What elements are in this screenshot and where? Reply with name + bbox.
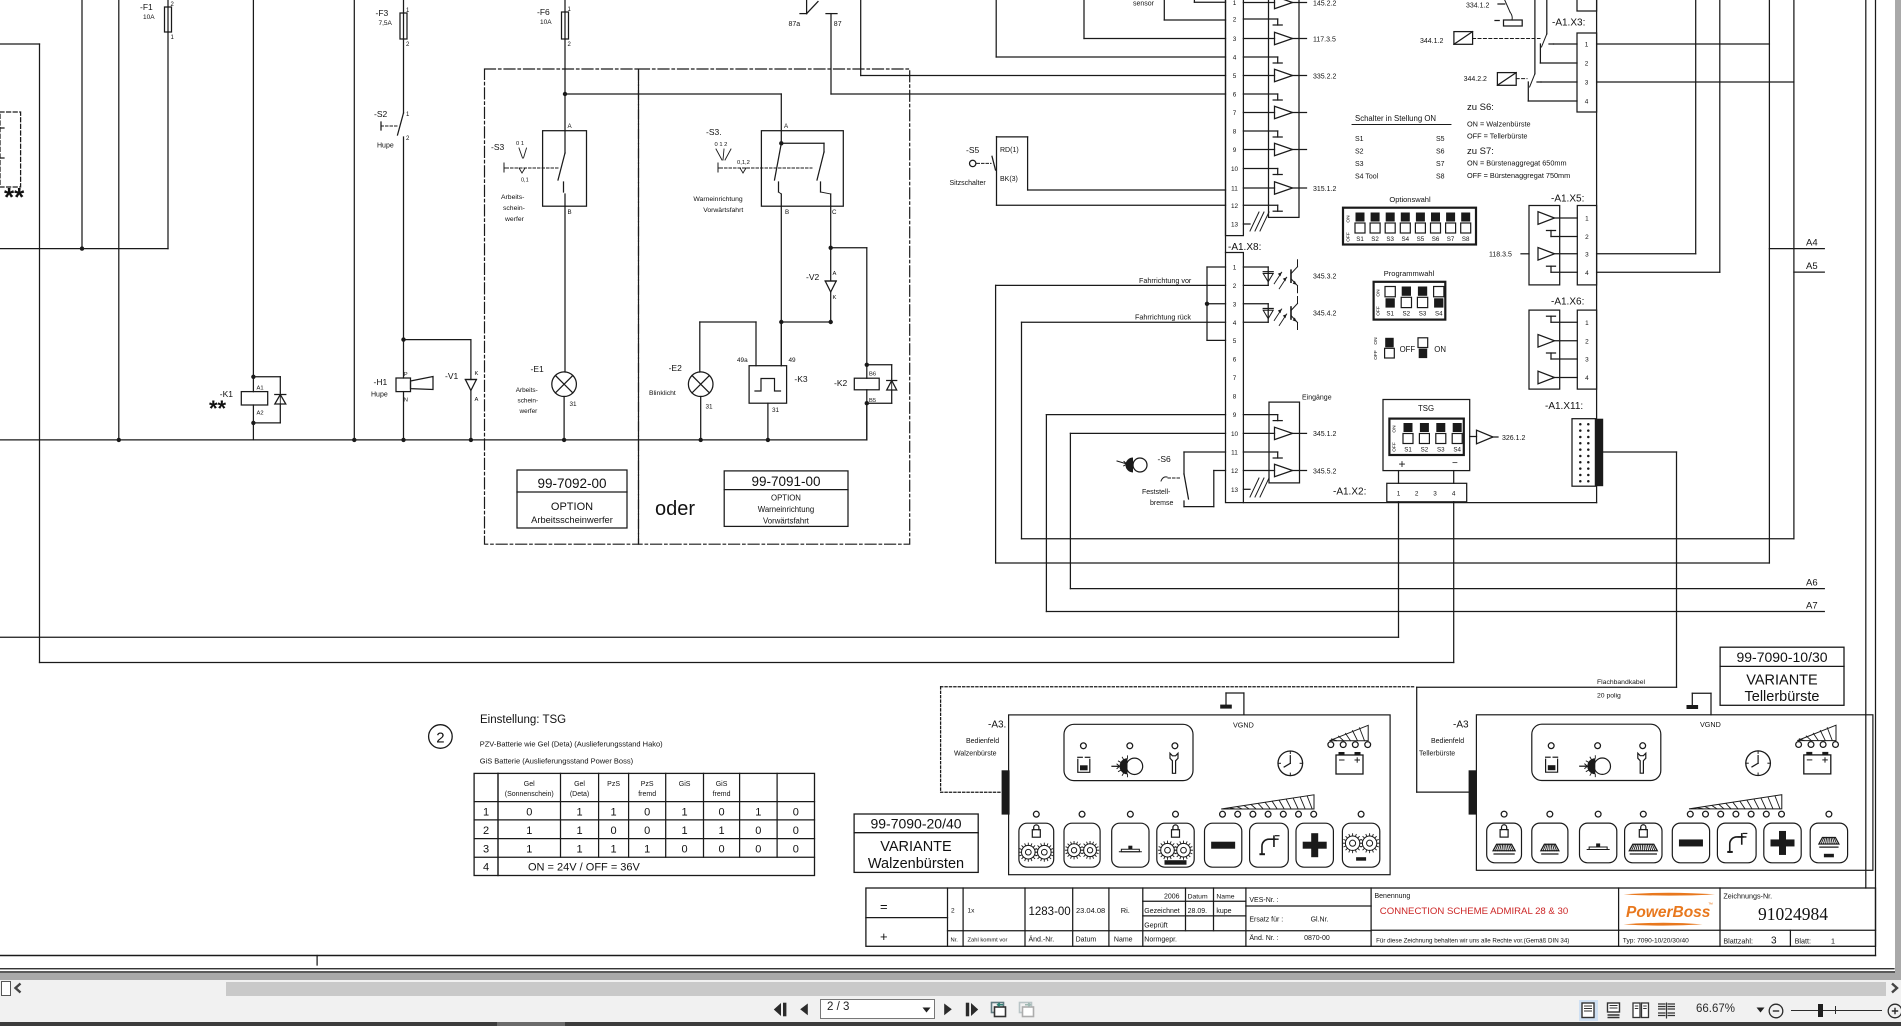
variant box 99-7090-20/40 bbox=[854, 814, 978, 872]
svg-text:Vorwärtsfahrt: Vorwärtsfahrt bbox=[763, 517, 810, 526]
svg-text:28.09.: 28.09. bbox=[1188, 908, 1208, 915]
wire X2 pin1 down to bus bbox=[1398, 502, 1400, 638]
dashed box (cut component) bbox=[0, 112, 21, 187]
svg-text:™: ™ bbox=[1708, 902, 1713, 908]
button 6 bbox=[1717, 823, 1756, 863]
svg-text:87: 87 bbox=[834, 21, 842, 28]
svg-text:OFF: OFF bbox=[1392, 442, 1398, 452]
svg-text:345.1.2: 345.1.2 bbox=[1313, 431, 1336, 438]
connector A1.X5 bbox=[1577, 206, 1596, 285]
svg-text:Tellerbürste: Tellerbürste bbox=[1419, 751, 1455, 758]
svg-text:1: 1 bbox=[568, 7, 572, 13]
svg-text:49: 49 bbox=[789, 357, 797, 364]
svg-text:8: 8 bbox=[1233, 394, 1237, 401]
svg-text:OFF: OFF bbox=[1346, 232, 1352, 242]
svg-text:0: 0 bbox=[644, 807, 650, 819]
scrollbar left grip box bbox=[1, 981, 11, 996]
svg-text:sensor: sensor bbox=[1133, 1, 1155, 8]
battery option table bbox=[474, 773, 814, 875]
svg-text:(Sonnenschein): (Sonnenschein) bbox=[505, 791, 554, 798]
variant box 99-7090-10/30 bbox=[1720, 647, 1844, 705]
svg-text:S8: S8 bbox=[1436, 174, 1445, 181]
svg-text:145.2.2: 145.2.2 bbox=[1313, 0, 1336, 7]
svg-text:7: 7 bbox=[1233, 375, 1237, 382]
driver pin 12 bbox=[1243, 470, 1274, 472]
wire TSG - to X2 pin4 bbox=[1453, 471, 1455, 484]
svg-text:2: 2 bbox=[1233, 17, 1237, 24]
svg-text:zu S6:: zu S6: bbox=[1467, 102, 1494, 113]
driver X6 pin 4 bbox=[1538, 371, 1555, 384]
parking brake lamp icon bbox=[1117, 461, 1127, 466]
svg-text:1: 1 bbox=[611, 807, 617, 819]
svg-text:B: B bbox=[568, 209, 572, 216]
connector A1.X7 strip bbox=[1226, 0, 1244, 236]
toolbar prev-page button bbox=[799, 1003, 811, 1017]
switch blade to pin3 bbox=[1534, 0, 1536, 74]
A1.X6 driver box bbox=[1529, 310, 1560, 389]
toolbar next-page button bbox=[943, 1003, 955, 1017]
svg-text:Zahl kommt vor: Zahl kommt vor bbox=[968, 938, 1008, 944]
relay coil K2 bbox=[854, 378, 879, 390]
svg-text:Datum: Datum bbox=[1076, 937, 1097, 944]
battery icon bbox=[1804, 755, 1831, 774]
svg-text:2: 2 bbox=[951, 908, 955, 915]
svg-text:49a: 49a bbox=[737, 357, 748, 364]
svg-text:91024984: 91024984 bbox=[1758, 904, 1828, 924]
svg-text:3: 3 bbox=[1771, 936, 1777, 947]
svg-text:Vorwärtsfahrt: Vorwärtsfahrt bbox=[703, 207, 743, 214]
button 1 bbox=[1019, 823, 1054, 867]
connector A1.X3 bbox=[1577, 33, 1597, 112]
svg-text:31: 31 bbox=[706, 404, 714, 411]
svg-text:1: 1 bbox=[526, 844, 532, 856]
svg-text:A6: A6 bbox=[1806, 578, 1818, 589]
wire C to K2 branch bbox=[831, 247, 867, 249]
svg-text:Einstellung: TSG: Einstellung: TSG bbox=[480, 714, 566, 726]
svg-text:99-7090-20/40: 99-7090-20/40 bbox=[870, 816, 961, 832]
switch blade to pin1 bbox=[1546, 0, 1548, 34]
svg-text:Walzenbürsten: Walzenbürsten bbox=[868, 856, 964, 872]
input symbol pin 2 bbox=[1243, 18, 1277, 20]
svg-text:Programmwahl: Programmwahl bbox=[1384, 269, 1435, 278]
svg-text:1: 1 bbox=[406, 112, 410, 118]
svg-text:2: 2 bbox=[1585, 234, 1589, 241]
svg-text:2: 2 bbox=[1585, 61, 1589, 68]
svg-text:0: 0 bbox=[718, 807, 724, 819]
svg-text:S5: S5 bbox=[1436, 136, 1445, 143]
svg-text:2: 2 bbox=[436, 730, 444, 747]
svg-text:Gel: Gel bbox=[574, 781, 585, 788]
driver pin 3 bbox=[1243, 38, 1274, 40]
bus to X2 pin1 bbox=[0, 636, 1399, 638]
flasher K3 bbox=[755, 322, 757, 366]
icon wrench bbox=[1638, 753, 1646, 773]
svg-text:99-7090-10/30: 99-7090-10/30 bbox=[1736, 649, 1827, 665]
LED circle bbox=[1172, 743, 1178, 749]
svg-text:0: 0 bbox=[611, 825, 617, 837]
scale circles bbox=[1687, 811, 1693, 817]
battery wedge bbox=[1330, 725, 1369, 740]
svg-text:OFF: OFF bbox=[1373, 350, 1379, 360]
svg-text:A: A bbox=[784, 123, 789, 130]
A1.X5 driver box bbox=[1529, 206, 1560, 285]
wire to S3. box A bbox=[565, 93, 781, 95]
svg-text:0: 0 bbox=[644, 825, 650, 837]
viewer canvas gray right strip bbox=[1895, 0, 1901, 980]
svg-text:1: 1 bbox=[171, 35, 175, 41]
scrollbar right arrow bbox=[1888, 981, 1901, 995]
layout icon two-page continuous bbox=[1657, 1002, 1676, 1019]
svg-text:344.2.2: 344.2.2 bbox=[1464, 76, 1487, 83]
svg-text:Walzenbürste: Walzenbürste bbox=[954, 751, 997, 758]
driver X5 pin 1 bbox=[1538, 212, 1555, 225]
driver X5 pin 3 bbox=[1538, 248, 1555, 261]
toolbar next-view icon (disabled) bbox=[1016, 1000, 1036, 1020]
indicator group box bbox=[1064, 724, 1193, 780]
driver pin 10 bbox=[1243, 432, 1274, 434]
driver pin 5 bbox=[1243, 75, 1274, 77]
svg-text:**: ** bbox=[209, 396, 227, 421]
svg-text:-S5: -S5 bbox=[966, 145, 980, 155]
wire pin9 to A7 bus bbox=[1045, 415, 1047, 612]
bus to X2 pin4 bbox=[40, 662, 1454, 664]
bracket to pin2 bbox=[1539, 44, 1541, 63]
svg-text:S3: S3 bbox=[1386, 236, 1394, 243]
svg-text:10: 10 bbox=[1231, 166, 1239, 173]
wire RD to X7 pin11 bbox=[1028, 189, 1226, 191]
svg-text:2006: 2006 bbox=[1164, 894, 1180, 901]
wire X3 pin3 to A5 riser bbox=[1597, 81, 1794, 83]
svg-text:Für diese Zeichnung behalten w: Für diese Zeichnung behalten wir uns all… bbox=[1376, 938, 1569, 945]
svg-text:1: 1 bbox=[682, 807, 688, 819]
button 8 bbox=[1810, 823, 1847, 863]
svg-text:=: = bbox=[880, 899, 888, 914]
svg-text:6: 6 bbox=[1233, 357, 1237, 364]
svg-text:OPTION: OPTION bbox=[771, 494, 801, 503]
button 8 bbox=[1342, 823, 1379, 867]
A4 riser bbox=[1768, 0, 1770, 563]
svg-text:A1: A1 bbox=[257, 386, 264, 392]
svg-text:S1: S1 bbox=[1356, 236, 1364, 243]
wire vor down to A4 bus bbox=[995, 285, 997, 563]
button 6 bbox=[1250, 823, 1289, 867]
svg-text:RD(1): RD(1) bbox=[1000, 147, 1019, 154]
harness dotted to left panel bbox=[941, 686, 1415, 688]
input symbol X5 pin 2 bbox=[1551, 236, 1577, 238]
svg-text:S4: S4 bbox=[1453, 447, 1461, 454]
zoom slider line bbox=[1791, 1010, 1882, 1011]
wire BK to X7 pin12 bbox=[997, 204, 1226, 206]
input symbol pin 9 bbox=[1243, 414, 1277, 416]
svg-text:1: 1 bbox=[644, 844, 650, 856]
svg-text:Datum: Datum bbox=[1188, 894, 1208, 901]
svg-text:-A3.: -A3. bbox=[988, 720, 1006, 731]
svg-text:Arbeitsscheinwerfer: Arbeitsscheinwerfer bbox=[531, 515, 613, 525]
button 4 bbox=[1625, 823, 1662, 863]
VGND ground symbol bbox=[1710, 693, 1712, 715]
battery circles bbox=[1328, 742, 1334, 748]
wire horizontal y248 bbox=[0, 248, 168, 250]
wire X5 pin4 up bbox=[1597, 271, 1720, 273]
svg-text:Änd.-Nr.: Änd.-Nr. bbox=[1029, 936, 1055, 944]
wire F1 down bbox=[167, 32, 169, 249]
svg-text:3: 3 bbox=[1585, 251, 1589, 258]
svg-text:S7: S7 bbox=[1436, 161, 1445, 168]
svg-text:S3: S3 bbox=[1419, 311, 1427, 318]
svg-text:2: 2 bbox=[1585, 338, 1589, 345]
svg-text:13: 13 bbox=[1231, 487, 1239, 494]
svg-text:A: A bbox=[568, 123, 573, 130]
input symbol pin 8 bbox=[1243, 130, 1277, 132]
fuse -F1 bbox=[140, 0, 175, 41]
svg-text:1283-00: 1283-00 bbox=[1029, 906, 1071, 918]
wire to X7 pin4 bbox=[995, 0, 997, 57]
driver X6 pin 2 bbox=[1538, 335, 1555, 348]
LED circle bbox=[1548, 743, 1554, 749]
svg-text:5: 5 bbox=[1233, 73, 1237, 80]
wire X5 pin3 up bbox=[1597, 253, 1696, 255]
zoom percent bbox=[1696, 1003, 1735, 1015]
svg-text:2: 2 bbox=[483, 825, 489, 837]
relay coil K1 bbox=[252, 0, 254, 392]
svg-text:1: 1 bbox=[1233, 0, 1237, 7]
input symbol X6 pin 3 bbox=[1551, 358, 1577, 360]
svg-text:S3: S3 bbox=[1437, 447, 1445, 454]
speed wedge bbox=[1689, 795, 1782, 809]
svg-text:S2: S2 bbox=[1371, 236, 1379, 243]
svg-text:344.1.2: 344.1.2 bbox=[1420, 38, 1443, 45]
svg-text:Fahrrichtung rück: Fahrrichtung rück bbox=[1135, 313, 1191, 322]
wire F3 to S2 bbox=[403, 39, 405, 113]
svg-text:4: 4 bbox=[483, 862, 489, 874]
svg-text:4: 4 bbox=[1233, 320, 1237, 327]
svg-text:OFF: OFF bbox=[1376, 306, 1382, 316]
svg-text:0: 0 bbox=[718, 844, 724, 856]
zoom slider tick bbox=[1835, 1006, 1836, 1014]
svg-text:13: 13 bbox=[1231, 222, 1239, 229]
svg-text:1: 1 bbox=[1233, 265, 1237, 272]
svg-text:3: 3 bbox=[1233, 301, 1237, 308]
svg-text:A5: A5 bbox=[1806, 261, 1818, 272]
svg-text:2: 2 bbox=[1233, 283, 1237, 290]
svg-text:Hupe: Hupe bbox=[371, 392, 388, 399]
relay contact K2 (87/87a) bbox=[806, 0, 808, 14]
svg-text:1: 1 bbox=[1585, 216, 1589, 223]
svg-text:B6: B6 bbox=[869, 372, 876, 378]
connector tab bbox=[1469, 770, 1477, 814]
optocoupler pins 3-4 bbox=[1243, 303, 1268, 305]
svg-text:S1: S1 bbox=[1404, 447, 1412, 454]
svg-text:335.2.2: 335.2.2 bbox=[1313, 73, 1336, 80]
wire X3 pin1 to A4 riser bbox=[1597, 43, 1770, 45]
svg-text:werfer: werfer bbox=[519, 408, 539, 415]
svg-text:S4: S4 bbox=[1435, 311, 1443, 318]
scrollbar thumb bbox=[226, 982, 1886, 996]
svg-text:0: 0 bbox=[793, 825, 799, 837]
input symbol pin 6 bbox=[1243, 93, 1277, 95]
svg-text:7: 7 bbox=[1233, 110, 1237, 117]
input symbol pin 12 bbox=[1243, 204, 1277, 206]
button 5 bbox=[1205, 823, 1242, 867]
svg-text:Warneinrichtung: Warneinrichtung bbox=[693, 196, 742, 203]
svg-text:A7: A7 bbox=[1806, 601, 1818, 612]
layout icon continuous bbox=[1606, 1002, 1622, 1019]
svg-text:+: + bbox=[880, 929, 888, 944]
driver pin 11 bbox=[1243, 187, 1274, 189]
svg-text:PzS: PzS bbox=[641, 781, 654, 788]
svg-text:Feststell-: Feststell- bbox=[1142, 489, 1171, 496]
input symbol pin 10 bbox=[1243, 168, 1277, 170]
svg-text:2: 2 bbox=[568, 42, 572, 48]
svg-text:1: 1 bbox=[406, 8, 410, 14]
svg-text:Ri.: Ri. bbox=[1121, 906, 1130, 915]
svg-text:OFF = Bürstenaggregat 750mm: OFF = Bürstenaggregat 750mm bbox=[1467, 171, 1570, 180]
svg-text:7,5A: 7,5A bbox=[379, 20, 393, 27]
wire to X7 pin5 bbox=[860, 0, 862, 76]
connector A1.X6 bbox=[1577, 310, 1596, 389]
svg-text:1: 1 bbox=[755, 807, 761, 819]
optocoupler pins 1-2 bbox=[1243, 266, 1268, 268]
svg-text:ON = Walzenbürste: ON = Walzenbürste bbox=[1467, 120, 1531, 129]
option label box 99-7091-00 bbox=[724, 471, 848, 527]
svg-text:Zeichnungs-Nr.: Zeichnungs-Nr. bbox=[1723, 892, 1772, 901]
svg-text:-S6: -S6 bbox=[1158, 454, 1172, 464]
svg-text:-E2: -E2 bbox=[669, 363, 683, 373]
VGND ground symbol bbox=[1243, 693, 1245, 715]
svg-text:4: 4 bbox=[1585, 375, 1589, 382]
switch S3 (Arbeitsscheinwerfer) bbox=[543, 131, 587, 207]
svg-text:Name: Name bbox=[1216, 894, 1234, 901]
svg-text:-F6: -F6 bbox=[537, 7, 550, 17]
svg-text:9: 9 bbox=[1233, 147, 1237, 154]
PowerBoss logo bbox=[1624, 893, 1716, 896]
svg-text:S4 Tool: S4 Tool bbox=[1355, 174, 1379, 181]
svg-text:-E1: -E1 bbox=[531, 364, 545, 374]
battery circles bbox=[1796, 742, 1802, 748]
svg-text:Eingänge: Eingänge bbox=[1302, 395, 1332, 402]
svg-text:1: 1 bbox=[483, 807, 489, 819]
option box 99-7092-00 dash-dot bbox=[485, 69, 639, 544]
ribbon cable wire bbox=[1603, 451, 1676, 453]
wire X2 pin4 down to bus bbox=[1453, 502, 1455, 663]
driver pin 9 bbox=[1243, 149, 1274, 151]
svg-text:ON: ON bbox=[1392, 425, 1398, 433]
svg-text:bremse: bremse bbox=[1150, 500, 1173, 507]
svg-text:ON = Bürstenaggregat 650mm: ON = Bürstenaggregat 650mm bbox=[1467, 159, 1567, 168]
control panel A3 Walzenbuerste bbox=[1009, 715, 1391, 875]
svg-text:CONNECTION SCHEME ADMIRAL 28 &: CONNECTION SCHEME ADMIRAL 28 & 30 bbox=[1380, 906, 1568, 917]
svg-text:3: 3 bbox=[1585, 357, 1589, 364]
X7 pin1 stub bbox=[1193, 0, 1195, 2]
icon brush circle bbox=[1580, 765, 1588, 767]
svg-text:-S3.: -S3. bbox=[706, 127, 722, 137]
svg-text:ON = 24V / OFF = 36V: ON = 24V / OFF = 36V bbox=[528, 862, 641, 874]
svg-text:S6: S6 bbox=[1432, 236, 1440, 243]
svg-text:OFF: OFF bbox=[1400, 345, 1416, 354]
svg-text:1: 1 bbox=[576, 844, 582, 856]
button 7 bbox=[1764, 823, 1801, 863]
dip switch Optionswahl bbox=[1343, 208, 1476, 245]
scale circles bbox=[1220, 811, 1226, 817]
svg-text:schein-: schein- bbox=[503, 205, 525, 212]
lamp E2 Blinklicht bbox=[700, 321, 756, 323]
clock icon bbox=[1278, 751, 1303, 776]
svg-text:Ersatz für :: Ersatz für : bbox=[1249, 917, 1283, 924]
switch S3. (Warneinrichtung) double pole bbox=[761, 131, 843, 207]
button 1 bbox=[1487, 823, 1522, 863]
svg-text:0 1: 0 1 bbox=[516, 141, 524, 147]
svg-text:PzS: PzS bbox=[607, 781, 620, 788]
svg-text:B: B bbox=[785, 209, 789, 216]
svg-text:-F1: -F1 bbox=[140, 2, 153, 12]
battery icon bbox=[1336, 755, 1363, 774]
svg-text:S2: S2 bbox=[1421, 447, 1429, 454]
svg-text:-A3: -A3 bbox=[1453, 720, 1469, 731]
svg-text:-A1.X8:: -A1.X8: bbox=[1228, 242, 1261, 253]
svg-text:Name: Name bbox=[1114, 937, 1133, 944]
wire pin4 rueck bbox=[1022, 321, 1226, 323]
svg-text:334.1.2: 334.1.2 bbox=[1466, 3, 1489, 10]
toolbar previous-view icon bbox=[988, 1000, 1008, 1020]
button 2 bbox=[1064, 823, 1100, 867]
svg-text:VARIANTE: VARIANTE bbox=[880, 839, 952, 855]
svg-text:1: 1 bbox=[718, 825, 724, 837]
button 3 bbox=[1580, 823, 1617, 863]
wire x82 bbox=[81, 0, 83, 249]
input symbol pin 4 bbox=[1243, 56, 1277, 58]
svg-text:Blattzahl:: Blattzahl: bbox=[1723, 937, 1753, 946]
LED circle bbox=[1595, 743, 1601, 749]
svg-text:1: 1 bbox=[576, 825, 582, 837]
svg-text:-A1.X3:: -A1.X3: bbox=[1552, 18, 1585, 29]
wire pin10 bbox=[1070, 432, 1225, 434]
wire F6 down bbox=[564, 39, 566, 131]
svg-text:oder: oder bbox=[655, 498, 695, 520]
svg-text:fremd: fremd bbox=[713, 791, 731, 798]
svg-text:N: N bbox=[404, 398, 408, 404]
X8 left bracket pins 1,3,5 bbox=[1206, 267, 1208, 340]
svg-text:2: 2 bbox=[406, 42, 410, 48]
svg-text:zu S7:: zu S7: bbox=[1467, 146, 1494, 157]
wire to X7 pin3 bbox=[1083, 0, 1085, 39]
svg-text:VGND: VGND bbox=[1233, 721, 1254, 730]
ground symbol X8 pin13 bbox=[1243, 488, 1250, 490]
LED circle bbox=[1081, 743, 1087, 749]
icon brush circle bbox=[1112, 765, 1120, 767]
svg-text:GiS Batterie (Auslieferungssta: GiS Batterie (Auslieferungsstand Power B… bbox=[480, 757, 634, 766]
svg-text:Änd. Nr. :: Änd. Nr. : bbox=[1249, 934, 1278, 942]
svg-text:-S3: -S3 bbox=[491, 142, 505, 152]
svg-text:BK(3): BK(3) bbox=[1000, 176, 1018, 183]
clock icon bbox=[1746, 751, 1771, 776]
svg-text:0870-00: 0870-00 bbox=[1304, 935, 1330, 942]
circled 2 bbox=[429, 725, 453, 749]
ground rail 0V bbox=[0, 439, 867, 441]
taskbar lighter segment bbox=[497, 1022, 565, 1026]
connector tab bbox=[1002, 770, 1010, 814]
svg-text:1: 1 bbox=[526, 825, 532, 837]
svg-text:Schalter in Stellung ON: Schalter in Stellung ON bbox=[1355, 114, 1436, 123]
svg-text:GiS: GiS bbox=[716, 781, 728, 788]
svg-text:Fahrrichtung vor: Fahrrichtung vor bbox=[1139, 276, 1192, 285]
svg-text:99-7091-00: 99-7091-00 bbox=[751, 474, 820, 489]
zoom caret bbox=[1755, 1006, 1767, 1014]
svg-text:31: 31 bbox=[772, 407, 780, 414]
svg-text:9: 9 bbox=[1233, 412, 1237, 419]
fuse -F6 bbox=[537, 0, 572, 48]
svg-text:werfer: werfer bbox=[504, 216, 525, 223]
scrollbar + toolbar background bbox=[0, 980, 1901, 1022]
